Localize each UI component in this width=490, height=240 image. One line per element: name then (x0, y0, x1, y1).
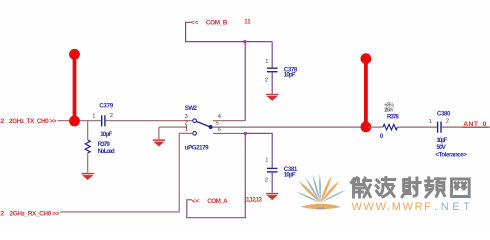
svg-text:5: 5 (216, 121, 219, 127)
wire R379 to ground (87, 153, 89, 173)
svg-text:WWW.MWRF: WWW.MWRF (352, 201, 432, 213)
wire pin2 to ground (159, 127, 187, 139)
svg-text:11: 11 (244, 19, 251, 25)
svg-text:1/16W: 1/16W (384, 108, 394, 114)
svg-text:10pF: 10pF (284, 171, 296, 178)
power bar (red) right (364, 59, 368, 127)
net ANT_0 underline (462, 126, 489, 128)
char bo (376, 178, 395, 197)
svg-text:No Load: No Load (98, 148, 115, 155)
junction on COM_B (243, 40, 246, 43)
wire C380 to ANT (442, 126, 490, 128)
resistor R378 (383, 124, 397, 129)
svg-text:SW2: SW2 (185, 105, 198, 112)
svg-text:COM_A: COM_A (207, 198, 228, 205)
capacitor C380 (437, 122, 439, 133)
net COM_A loop (187, 133, 246, 217)
char wei (351, 178, 370, 197)
svg-text:<<: << (192, 198, 200, 205)
net COM_B bracket (186, 22, 273, 41)
svg-text:uPG2179: uPG2179 (185, 144, 209, 151)
watermark chinese text (drawn strokes) (351, 178, 469, 198)
wire bar to R378 (368, 126, 383, 128)
wire R378 to C380 (397, 126, 437, 128)
wire COM_B to C378 (271, 42, 273, 68)
wire pin1 to RX net (60, 133, 193, 212)
watermark logo petals (296, 174, 346, 210)
svg-text:10pF: 10pF (100, 131, 112, 138)
svg-text:.NET: .NET (434, 201, 470, 213)
char wang (452, 179, 470, 197)
wire pole rail to power bar (213, 126, 364, 128)
svg-text:11,12,13: 11,12,13 (244, 197, 263, 203)
wire pin4 stub (213, 120, 245, 122)
svg-text:1: 1 (265, 59, 268, 65)
svg-text:COM_B: COM_B (206, 19, 228, 26)
pin2 end tick (185, 125, 187, 130)
svg-text:H2: H2 (0, 210, 5, 217)
svg-text:10pF: 10pF (284, 72, 296, 79)
svg-text:1: 1 (265, 158, 268, 164)
svg-text:2GHz_RX_CH0 >>: 2GHz_RX_CH0 >> (10, 210, 60, 217)
svg-text:10pF: 10pF (436, 137, 447, 144)
svg-text:<<: << (191, 20, 199, 27)
wire R379 riser (87, 121, 89, 140)
svg-text:2GHz_TX_CH0 >>: 2GHz_TX_CH0 >> (9, 118, 57, 125)
char pin (426, 178, 445, 197)
pin1 circle (SW2) (193, 132, 197, 136)
svg-text:R379: R379 (98, 141, 111, 148)
switch arm SW2 (196, 121, 209, 126)
svg-text:4: 4 (218, 114, 222, 120)
wire to C381 (245, 133, 272, 167)
wire COM_B vertical to pin4 (244, 42, 246, 121)
capacitor C379 (101, 115, 103, 126)
power bar (red) left (73, 55, 77, 122)
capacitor C378 (267, 67, 278, 69)
svg-text:1: 1 (92, 113, 95, 119)
svg-text:0: 0 (380, 133, 384, 140)
ground below C378 (266, 95, 278, 101)
wire C378 to ground (271, 72, 273, 94)
ground near SW2 (153, 140, 165, 146)
resistor R379 (85, 140, 90, 153)
svg-text:H2: H2 (0, 118, 5, 125)
svg-text:50V: 50V (436, 144, 446, 151)
wire TX rail (58, 120, 193, 122)
svg-text:2: 2 (265, 178, 268, 184)
svg-text:3: 3 (185, 114, 188, 120)
svg-text:2: 2 (446, 119, 449, 125)
char she (402, 178, 420, 197)
svg-text:R378: R378 (387, 115, 399, 121)
svg-text:C380: C380 (437, 111, 451, 118)
svg-text:6: 6 (218, 127, 221, 133)
svg-text:1: 1 (429, 119, 432, 125)
svg-text:2: 2 (265, 78, 268, 84)
switch pole dot SW2 (209, 125, 213, 129)
svg-text:C379: C379 (99, 103, 114, 110)
wire pin6 stub (213, 132, 245, 134)
op pin3 circle (SW2) (193, 119, 197, 123)
svg-text:2: 2 (110, 113, 113, 119)
capacitor C381 (267, 167, 278, 169)
svg-text:ANT_0: ANT_0 (463, 121, 486, 128)
watermark logo base (300, 204, 341, 210)
ground below C381 (266, 194, 278, 200)
junction at pin6 net (244, 132, 247, 135)
ground below R379 (82, 174, 94, 180)
wire C381 to ground (271, 172, 273, 193)
svg-text:<Tolerance>: <Tolerance> (435, 152, 467, 159)
